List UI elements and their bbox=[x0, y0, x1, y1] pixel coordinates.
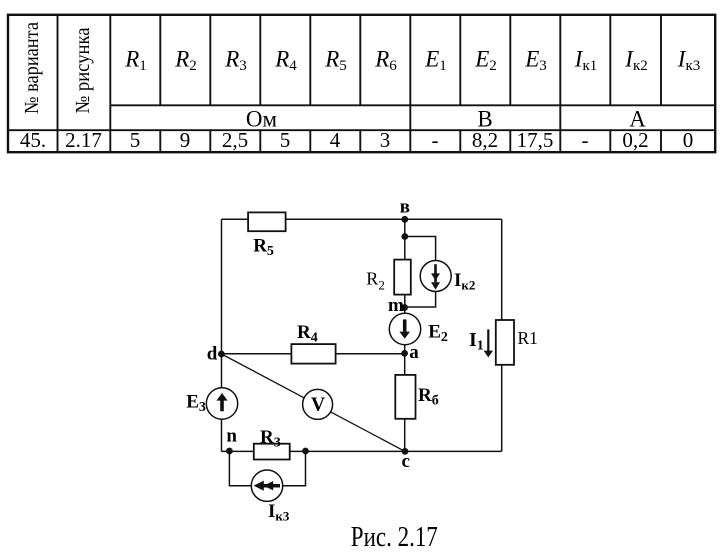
svg-text:8,2: 8,2 bbox=[472, 128, 498, 152]
svg-text:0,2: 0,2 bbox=[622, 128, 648, 152]
table column lines bbox=[58, 15, 662, 152]
node c bbox=[402, 448, 410, 472]
svg-text:-: - bbox=[582, 128, 589, 152]
svg-text:Рис. 2.17: Рис. 2.17 bbox=[351, 522, 438, 553]
voltmeter V bbox=[303, 389, 333, 419]
svg-text:Ом: Ом bbox=[246, 107, 278, 132]
wire: diagonal d to c through voltmeter bbox=[222, 354, 406, 451]
resistor R2 bbox=[366, 260, 411, 295]
svg-text:Iк2: Iк2 bbox=[454, 270, 475, 293]
svg-text:9: 9 bbox=[180, 128, 191, 152]
wire: m to a through E2 bbox=[404, 308, 406, 354]
svg-text:R2: R2 bbox=[366, 269, 385, 293]
svg-text:n: n bbox=[226, 425, 237, 446]
node в bbox=[400, 197, 410, 223]
svg-text:2,5: 2,5 bbox=[222, 128, 248, 152]
svg-text:5: 5 bbox=[280, 128, 291, 152]
svg-text:-: - bbox=[432, 128, 439, 152]
svg-text:Rб: Rб bbox=[418, 385, 439, 409]
current arrow I1 bbox=[469, 329, 493, 358]
svg-text:E3: E3 bbox=[186, 391, 206, 415]
caption Рис. 2.17 bbox=[351, 522, 438, 553]
source E2 bbox=[389, 313, 448, 345]
unit row Ом В А bbox=[246, 107, 646, 132]
svg-text:m: m bbox=[388, 295, 404, 316]
node n bbox=[226, 425, 237, 454]
svg-text:4: 4 bbox=[330, 128, 341, 152]
svg-text:E3: E3 bbox=[524, 47, 547, 75]
svg-text:17,5: 17,5 bbox=[517, 128, 554, 152]
svg-text:R5: R5 bbox=[253, 236, 274, 260]
svg-text:R4: R4 bbox=[297, 322, 318, 346]
node d bbox=[207, 344, 225, 365]
svg-text:d: d bbox=[207, 344, 218, 365]
svg-text:0: 0 bbox=[683, 128, 694, 152]
svg-text:E2: E2 bbox=[474, 47, 497, 75]
wire: R2 branch from junction to node m bbox=[404, 237, 406, 308]
svg-text:R3: R3 bbox=[224, 47, 247, 75]
wire: Iк3 parallel loop under R3 bbox=[229, 451, 305, 486]
junction right of R3 bbox=[302, 448, 309, 455]
svg-text:V: V bbox=[311, 395, 325, 416]
resistor R4 bbox=[291, 322, 335, 364]
table row lines bbox=[8, 105, 715, 130]
svg-text:I1: I1 bbox=[469, 329, 484, 354]
wire: stub from node в down to junction bbox=[404, 219, 406, 236]
wire: right side from top corner down to bottom corner bbox=[501, 219, 503, 451]
svg-text:в: в bbox=[400, 197, 410, 218]
resistor R1 bbox=[496, 320, 538, 365]
svg-text:R3: R3 bbox=[260, 427, 281, 451]
svg-text:№ варианта: № варианта bbox=[21, 22, 43, 114]
svg-text:E2: E2 bbox=[428, 322, 448, 346]
parameters table outer border bbox=[8, 15, 715, 152]
wire: top side d-corner to в to top-right corner bbox=[222, 218, 502, 220]
wire: a to c through R6 bbox=[404, 353, 406, 451]
svg-text:c: c bbox=[402, 451, 410, 472]
svg-text:Iк3: Iк3 bbox=[677, 47, 700, 75]
current source Iк2 bbox=[420, 261, 475, 293]
junction below в bbox=[401, 233, 408, 240]
wire: left side from top corner down to n corner bbox=[221, 219, 223, 451]
svg-text:R1: R1 bbox=[124, 47, 147, 75]
wire: Iк2 branch loop bbox=[405, 237, 436, 308]
current source Iк3 bbox=[251, 470, 290, 524]
svg-text:Iк3: Iк3 bbox=[268, 501, 290, 524]
svg-text:№ рисунка: № рисунка bbox=[72, 27, 94, 113]
data row bbox=[20, 128, 693, 152]
svg-text:45.: 45. bbox=[20, 128, 46, 152]
resistor R6 bbox=[395, 375, 438, 419]
resistor R3 bbox=[254, 427, 290, 460]
wire: bottom side n to c to bottom-right corner bbox=[222, 450, 502, 452]
svg-text:R2: R2 bbox=[174, 47, 197, 75]
svg-text:Iк2: Iк2 bbox=[624, 47, 647, 75]
svg-text:R1: R1 bbox=[518, 328, 538, 348]
svg-text:5: 5 bbox=[130, 128, 141, 152]
node m bbox=[388, 295, 408, 316]
node a bbox=[401, 342, 419, 363]
svg-text:2.17: 2.17 bbox=[65, 128, 102, 152]
svg-text:Iк1: Iк1 bbox=[574, 47, 597, 75]
source E3 bbox=[186, 388, 238, 419]
svg-text:R4: R4 bbox=[274, 47, 297, 75]
wire: d to a through R4 bbox=[222, 353, 405, 355]
svg-text:R6: R6 bbox=[374, 47, 397, 75]
column headers R1..R6 E1..E3 Iк1..Iк3 bbox=[124, 47, 700, 75]
svg-text:a: a bbox=[409, 342, 419, 363]
svg-text:E1: E1 bbox=[424, 47, 447, 75]
svg-text:3: 3 bbox=[380, 128, 391, 152]
resistor R5 bbox=[248, 212, 286, 259]
svg-text:R5: R5 bbox=[324, 47, 347, 75]
